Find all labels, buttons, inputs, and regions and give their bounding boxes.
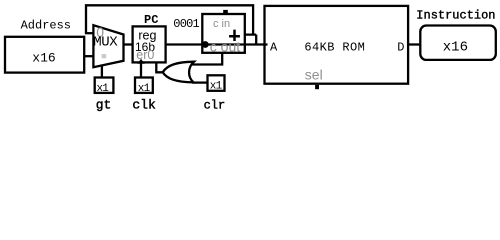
- svg-text:D: D: [397, 40, 404, 54]
- clk x1 box: [135, 78, 153, 93]
- mux MUX trapezoid: [93, 25, 123, 67]
- Address input box: [5, 37, 84, 73]
- adder + box: [202, 14, 245, 53]
- svg-text:sel: sel: [305, 67, 323, 83]
- wire MUX output to PC reg input: [123, 43, 133, 45]
- svg-text:A: A: [270, 40, 278, 54]
- wire clk: reg bottom-left pin to clk box: [140, 63, 142, 79]
- wire select: MUX to gt box: [101, 64, 103, 78]
- svg-text:clk: clk: [132, 97, 156, 112]
- svg-text:x1: x1: [96, 83, 109, 95]
- gt x1 box: [95, 78, 114, 93]
- svg-text:clr: clr: [204, 98, 226, 112]
- wire MUX input 0 tick: [85, 32, 94, 34]
- A input tick inside ROM: [263, 43, 267, 45]
- wire ROM D to Instruction box: [408, 43, 421, 45]
- wire main bus: reg out to ROM A: [166, 43, 268, 45]
- svg-text:PC: PC: [144, 13, 158, 27]
- svg-text:0001: 0001: [173, 17, 199, 31]
- mux select grey square marker: [102, 54, 107, 58]
- bus line over adder bottom: [202, 43, 246, 45]
- svg-text:er0: er0: [136, 48, 154, 62]
- 0001 input tick into adder: [202, 24, 209, 26]
- wire clr box to OR bottom input: [192, 81, 208, 83]
- wire Address box to MUX input 1: [84, 55, 94, 57]
- svg-text:x16: x16: [32, 51, 55, 66]
- svg-text:x16: x16: [443, 39, 468, 55]
- register box: [133, 26, 166, 62]
- c in unconnected pin nub: [223, 10, 228, 15]
- svg-text:64KB ROM: 64KB ROM: [304, 41, 365, 55]
- plus sign: [229, 30, 240, 41]
- OR gate pointing left: [163, 62, 194, 83]
- svg-text:x1: x1: [138, 83, 151, 95]
- Instruction output box rounded: [420, 26, 496, 60]
- sel unconnected pin nub: [315, 85, 319, 89]
- svg-text:c in: c in: [213, 18, 230, 30]
- svg-text:c out: c out: [210, 39, 240, 55]
- clr x1 box: [208, 75, 225, 91]
- svg-text:MUX: MUX: [93, 35, 118, 51]
- svg-text:Address: Address: [21, 19, 71, 33]
- junction dot on adder input: [202, 41, 209, 48]
- clock triangle marker on reg bottom: [137, 59, 145, 64]
- wire feedback: adder out, up and over to MUX in0: [86, 5, 256, 44]
- svg-text:x1: x1: [210, 81, 223, 93]
- ROM box: [265, 6, 409, 84]
- wire c out down and left to OR top input: [191, 53, 223, 65]
- wire reg bottom-right pin / OR output: [155, 62, 165, 72]
- svg-text:gt: gt: [96, 97, 112, 112]
- svg-text:Instruction: Instruction: [416, 8, 495, 22]
